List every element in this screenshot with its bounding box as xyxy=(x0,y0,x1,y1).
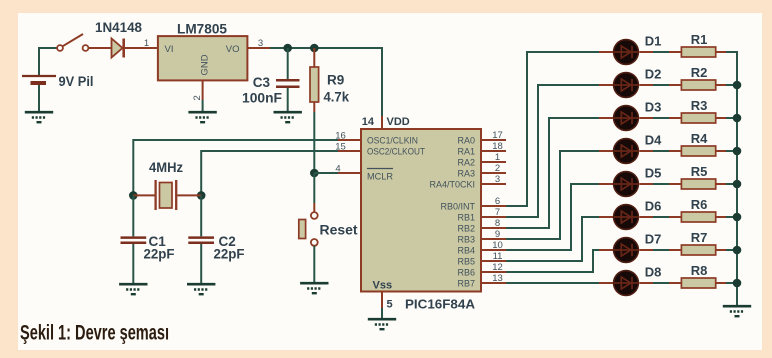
wire switch to diode xyxy=(89,47,112,49)
resistor R2 right stub xyxy=(716,84,726,86)
diode D9 1N4148 xyxy=(112,39,124,58)
resistor R4 right stub xyxy=(716,150,726,152)
node rail/C3 xyxy=(283,44,292,53)
capacitor C2 22pF xyxy=(188,238,214,243)
LED D7 anode stub xyxy=(599,249,613,251)
resistor R7 right stub xyxy=(716,249,726,251)
wire D2 to R2 xyxy=(653,84,669,86)
pin 11 stub RB5 xyxy=(481,260,506,262)
svg-text:Şekil 1: Devre şeması: Şekil 1: Devre şeması xyxy=(20,322,169,345)
node crystal right xyxy=(197,191,206,200)
wire D5 to R5 xyxy=(653,183,669,185)
wire battery to switch xyxy=(39,48,58,75)
LED D7 cathode stub xyxy=(639,249,653,251)
pin 8 stub RB2 xyxy=(481,227,506,229)
node bus/R3 xyxy=(733,114,742,123)
crystal X1 4MHz xyxy=(156,180,177,210)
wire D8 to R8 xyxy=(653,282,669,284)
wire MCLR node to reset switch xyxy=(313,173,315,203)
wire battery to ground xyxy=(38,85,40,111)
LED D1 cathode stub xyxy=(639,51,653,53)
wire R7 to bus xyxy=(726,249,738,251)
wire Vss to ground xyxy=(381,308,383,318)
resistor R5 right stub xyxy=(716,183,726,185)
node bus/R6 xyxy=(733,213,742,222)
wire RB2 to D3 xyxy=(506,118,601,228)
Vss pin stub xyxy=(381,292,383,309)
pin 13 stub RB7 xyxy=(481,282,506,284)
ground (C1) xyxy=(119,284,147,294)
LED D2 xyxy=(614,73,639,98)
LED D3 xyxy=(614,106,639,131)
LED D5 anode stub xyxy=(599,183,613,185)
microcontroller U2 PIC16F84A xyxy=(361,129,481,292)
wire MCLR node to pin 4 xyxy=(314,172,338,174)
node MCLR xyxy=(310,169,319,178)
wire to crystal right xyxy=(177,194,201,196)
resistor R3 right stub xyxy=(716,117,726,119)
LED D4 anode stub xyxy=(599,150,613,152)
wire D7 to R7 xyxy=(653,249,669,251)
LED D6 cathode stub xyxy=(639,216,653,218)
LED D5 cathode stub xyxy=(639,183,653,185)
resistor R9 4.7k xyxy=(310,67,319,102)
wire rail to C3 xyxy=(287,48,289,79)
pin 1 stub RA2 xyxy=(481,161,506,163)
VDD pin stub xyxy=(381,116,383,129)
wire R9 to MCLR node xyxy=(313,102,315,112)
resistor R1 stub xyxy=(669,51,681,53)
LED D6 anode stub xyxy=(599,216,613,218)
node bus/R7 xyxy=(733,246,742,255)
wire R3 to bus xyxy=(726,117,738,119)
wire D4 to R4 xyxy=(653,150,669,152)
resistor R4 xyxy=(681,146,715,156)
wire OSC1 net xyxy=(133,140,338,195)
resistor R6 stub xyxy=(669,216,681,218)
wire RB3 to D4 xyxy=(506,151,601,239)
pin 2 stub of LM7805 xyxy=(202,80,204,100)
pin 10 stub RB4 xyxy=(481,249,506,251)
wire R6 to bus xyxy=(726,216,738,218)
LED D1 anode stub xyxy=(599,51,613,53)
resistor R1 right stub xyxy=(716,51,726,53)
wire D3 to R3 xyxy=(653,117,669,119)
ground (reset) xyxy=(300,283,328,293)
wire +5V rail to VDD xyxy=(270,48,382,116)
pin 15 stub OSC2 xyxy=(338,150,361,152)
switch S1 xyxy=(57,34,88,51)
LED D1 xyxy=(614,40,639,65)
wire pin2 to ground xyxy=(202,100,204,111)
wire R1 to bus xyxy=(726,51,738,53)
node rail/R9 xyxy=(310,44,319,53)
pin 17 stub RA0 xyxy=(481,139,506,141)
ground (bus) xyxy=(723,306,751,316)
pin 7 stub RB1 xyxy=(481,216,506,218)
resistor R5 xyxy=(681,179,715,189)
wire C1 to ground xyxy=(132,244,134,283)
wire rail to R9 xyxy=(313,48,315,67)
wire D6 to R6 xyxy=(653,216,669,218)
wire RB0 to D1 xyxy=(506,52,601,206)
wire RB1 to D2 xyxy=(506,85,601,217)
resistor R1 xyxy=(681,47,715,57)
wire RB7 to D8 xyxy=(506,282,601,284)
wire RB4 to D5 xyxy=(506,184,601,250)
wire C3 to ground xyxy=(287,88,289,111)
resistor R5 stub xyxy=(669,183,681,185)
wire to crystal left xyxy=(133,194,154,196)
pin 16 stub OSC1 xyxy=(338,139,361,141)
wire reset to ground xyxy=(313,246,315,282)
LED D2 cathode stub xyxy=(639,84,653,86)
resistor R3 xyxy=(681,113,715,123)
LED D6 xyxy=(614,205,639,230)
pin 6 stub RB0/INT xyxy=(481,205,506,207)
resistor R6 xyxy=(681,212,715,222)
LED D3 cathode stub xyxy=(639,117,653,119)
node crystal left xyxy=(129,191,138,200)
wire R5 to bus xyxy=(726,183,738,185)
ground (C3) xyxy=(274,112,302,122)
resistor R7 xyxy=(681,245,715,255)
resistor R4 stub xyxy=(669,150,681,152)
LED D4 xyxy=(614,139,639,164)
ground (C2) xyxy=(187,284,215,294)
LED D7 xyxy=(614,238,639,263)
ground (LM7805 GND) xyxy=(188,112,216,122)
resistor R2 xyxy=(681,80,715,90)
node bus/R4 xyxy=(733,147,742,156)
ground (Vss) xyxy=(368,319,396,329)
LED D4 cathode stub xyxy=(639,150,653,152)
resistor R2 stub xyxy=(669,84,681,86)
resistor R8 xyxy=(681,278,715,288)
capacitor C1 22pF xyxy=(121,238,147,243)
wire R2 to bus xyxy=(726,84,738,86)
LED D2 anode stub xyxy=(599,84,613,86)
wire D1 to R1 xyxy=(653,51,669,53)
wire R8 to bus xyxy=(726,282,738,284)
resistor R6 right stub xyxy=(716,216,726,218)
LED D5 xyxy=(614,172,639,197)
wire R4 to bus xyxy=(726,150,738,152)
resistor R3 stub xyxy=(669,117,681,119)
push button Reset xyxy=(299,212,318,246)
pin 12 stub RB6 xyxy=(481,271,506,273)
ground (battery) xyxy=(25,112,53,122)
pin 9 stub RB3 xyxy=(481,238,506,240)
pin 4 stub MCLR xyxy=(338,172,361,174)
pin 2 stub RA3 xyxy=(481,172,506,174)
wire OSC2 net xyxy=(201,151,338,195)
wire diode to regulator pin 1 xyxy=(125,47,158,49)
LED D8 xyxy=(614,271,639,296)
LED D8 anode stub xyxy=(599,282,613,284)
battery BT1 9V Pil xyxy=(22,76,56,83)
wire ground bus xyxy=(736,52,738,305)
wire crystal-left to C1 xyxy=(132,195,134,236)
node bus/R5 xyxy=(733,180,742,189)
wire RB5 to D6 xyxy=(506,217,601,261)
pin 3 stub RA4/T0CKI xyxy=(481,183,506,185)
LED D3 anode stub xyxy=(599,117,613,119)
pin 18 stub RA1 xyxy=(481,150,506,152)
resistor R8 right stub xyxy=(716,282,726,284)
resistor R7 stub xyxy=(669,249,681,251)
capacitor C3 100nF xyxy=(276,80,300,87)
resistor R8 stub xyxy=(669,282,681,284)
voltage regulator U1 LM7805 xyxy=(158,36,248,80)
pin 3 stub xyxy=(247,47,270,49)
wire crystal-right to C2 xyxy=(200,195,202,236)
wire RB6 to D7 xyxy=(506,250,601,272)
node bus/R8 xyxy=(733,279,742,288)
LED D8 cathode stub xyxy=(639,282,653,284)
wire C2 to ground xyxy=(200,244,202,283)
node bus/R2 xyxy=(733,81,742,90)
